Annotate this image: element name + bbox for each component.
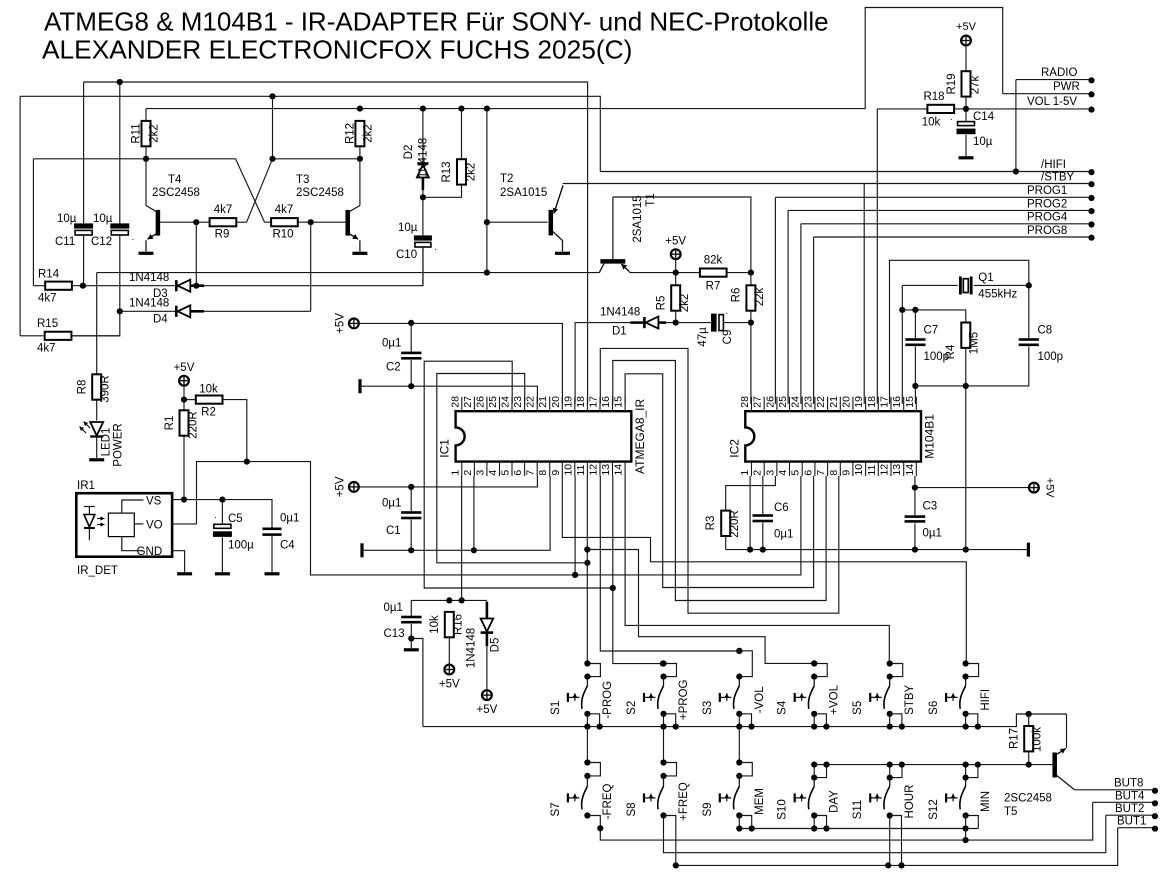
wire row2 bottom bus [736, 816, 978, 832]
resistor R8 [77, 273, 112, 421]
wire IC1 pin10 to IR signal [572, 476, 578, 578]
svg-text:C1: C1 [386, 525, 401, 537]
svg-text:R19: R19 [946, 73, 958, 94]
svg-text:1N4148: 1N4148 [129, 298, 169, 310]
svg-text:1: 1 [449, 470, 461, 476]
switch S1 -PROG [550, 660, 614, 729]
transistor T1 [599, 193, 657, 272]
svg-text:C14: C14 [973, 111, 995, 123]
svg-text:R18: R18 [923, 91, 944, 103]
resistor R9 [210, 204, 247, 241]
diode D1 [575, 307, 676, 404]
svg-text:2: 2 [752, 470, 764, 476]
svg-text:5: 5 [500, 470, 512, 476]
svg-text:S6: S6 [928, 701, 940, 715]
svg-text:4k7: 4k7 [38, 293, 57, 305]
svg-text:2k2: 2k2 [466, 163, 478, 182]
power +5V top right [956, 21, 977, 71]
svg-text:STBY: STBY [904, 684, 916, 714]
switch S11 HOUR [852, 762, 916, 820]
ground under C14 [959, 156, 974, 159]
svg-text:PROG4: PROG4 [1027, 212, 1068, 224]
svg-text:·: · [950, 114, 953, 124]
wire C13 to switch common [411, 639, 423, 727]
svg-text:+5V: +5V [477, 704, 498, 716]
svg-text:S12: S12 [928, 799, 940, 819]
wire Q1 left to IC2 pin16 [899, 285, 905, 404]
svg-text:6: 6 [802, 470, 814, 476]
wire IC1 pin13 to S2 [613, 476, 666, 667]
svg-text:R14: R14 [38, 269, 60, 281]
svg-text:·: · [132, 234, 135, 244]
ground under T2 [555, 252, 570, 255]
svg-text:82k: 82k [704, 255, 723, 267]
wire node T4 collector row [33, 156, 363, 162]
svg-text:R16: R16 [453, 614, 465, 635]
svg-text:M104B1: M104B1 [923, 414, 937, 459]
svg-text:ATMEGA8_IR: ATMEGA8_IR [633, 399, 647, 474]
wire IC1 pin1 riser [461, 476, 463, 600]
svg-text:0µ1: 0µ1 [382, 498, 401, 510]
wire gnd rail left [363, 476, 550, 553]
svg-text:R12: R12 [344, 123, 356, 144]
svg-text:C11: C11 [55, 236, 75, 248]
svg-text:1: 1 [739, 470, 751, 476]
svg-text:27k: 27k [970, 75, 982, 94]
wire VS net [172, 497, 272, 528]
svg-text:C12: C12 [91, 236, 112, 248]
diode D3 [129, 247, 423, 300]
ground under LED1 [89, 458, 104, 461]
svg-text:1N4148: 1N4148 [600, 307, 640, 319]
wire IC1 pin12 to S3 [600, 476, 742, 654]
switch S12 MIN [928, 762, 992, 820]
svg-text:D5: D5 [490, 638, 502, 653]
svg-text:C3: C3 [923, 501, 938, 513]
svg-text:0µ1: 0µ1 [774, 529, 793, 541]
resistor R2 [184, 384, 247, 462]
resistor R1 [164, 410, 200, 499]
resistor R4 [945, 323, 981, 553]
wire rail1 (C11/C12 top to IC1 pin18) [84, 79, 588, 404]
svg-text:RADIO: RADIO [1041, 67, 1077, 79]
resistor R18 [877, 91, 966, 129]
svg-text:ATMEG8 & M104B1 - IR-ADAPTER F: ATMEG8 & M104B1 - IR-ADAPTER Für SONY- u… [44, 7, 829, 37]
svg-text:R8: R8 [77, 380, 89, 395]
resistor R16 [429, 612, 465, 665]
wire D4 riser from T3 base [310, 222, 312, 311]
svg-text:BUT4: BUT4 [1115, 790, 1145, 802]
ground under C5 [215, 572, 230, 575]
switch S6 HIFI [928, 660, 992, 729]
svg-text:13: 13 [891, 464, 903, 476]
svg-text:10k: 10k [922, 117, 941, 129]
wire switch row1 common [423, 711, 1067, 727]
svg-text:4k7: 4k7 [214, 204, 233, 216]
svg-text:ALEXANDER ELECTRONICFOX FUCHS: ALEXANDER ELECTRONICFOX FUCHS 2025(C) [42, 35, 632, 65]
svg-text:21: 21 [828, 396, 840, 408]
svg-text:8: 8 [828, 470, 840, 476]
svg-text:19: 19 [853, 396, 865, 408]
svg-text:21: 21 [537, 396, 549, 408]
svg-text:24: 24 [790, 396, 802, 408]
ground bar left mid [360, 543, 363, 557]
svg-text:+5V: +5V [1044, 478, 1056, 499]
wire S12 down [963, 816, 979, 844]
svg-text:2k2: 2k2 [149, 124, 161, 143]
svg-text:-VOL: -VOL [754, 686, 766, 713]
svg-text:0µ1: 0µ1 [382, 338, 401, 350]
transistor T2 [484, 173, 563, 252]
svg-text:9: 9 [550, 470, 562, 476]
wire reset net [411, 597, 487, 615]
svg-text:R7: R7 [706, 281, 721, 293]
svg-text:LED1: LED1 [101, 428, 113, 457]
wire IC1 pin2 to gnd [473, 476, 475, 550]
wire RADIO riser to HIFI [1013, 80, 1019, 175]
net label BUT4 [1093, 790, 1158, 806]
svg-text:+PROG: +PROG [678, 679, 690, 720]
net label RADIO [1016, 67, 1095, 83]
wire S9 staple down [739, 816, 751, 829]
svg-text:T2: T2 [500, 173, 513, 185]
svg-text:BUT1: BUT1 [1117, 816, 1146, 828]
capacitor C2 [382, 323, 421, 386]
svg-text:+5V: +5V [665, 236, 686, 248]
svg-text:10k: 10k [429, 615, 441, 634]
svg-text:10µ: 10µ [973, 136, 993, 148]
capacitor C3 [905, 488, 942, 550]
net label PROG2 [788, 198, 1095, 404]
svg-text:C6: C6 [774, 502, 789, 514]
svg-text:9: 9 [840, 470, 852, 476]
svg-text:HIFI: HIFI [980, 689, 992, 711]
power +5V at C1 [335, 476, 359, 497]
svg-text:10k: 10k [199, 384, 218, 396]
switch S2 +PROG [626, 660, 690, 729]
svg-text:S3: S3 [702, 701, 714, 715]
svg-text:+5V: +5V [174, 362, 195, 374]
svg-text:R6: R6 [731, 288, 743, 303]
svg-text:26: 26 [764, 396, 776, 408]
capacitor C13 [384, 602, 422, 642]
svg-text:10: 10 [562, 464, 574, 476]
svg-text:+5V: +5V [335, 476, 347, 497]
power +5V at IC2 pin14 [912, 476, 1056, 498]
svg-text:22: 22 [525, 396, 537, 408]
svg-text:R5: R5 [656, 296, 668, 311]
svg-text:100p: 100p [1038, 351, 1064, 363]
wire T1 emitter node [630, 270, 700, 276]
svg-text:BUT8: BUT8 [1114, 778, 1143, 790]
wire gnd rail right [726, 547, 1022, 553]
wire S10 staple down [814, 816, 826, 829]
IC U2 M104B1 (IC2) [727, 396, 936, 476]
capacitor C11 [55, 82, 99, 286]
svg-text:28: 28 [449, 396, 461, 408]
wire rail3 (R11/R12/D2/R13/T2 tops to +5V top right) [146, 8, 1003, 112]
net label PROG8 [814, 225, 1095, 404]
svg-text:D1: D1 [612, 326, 627, 338]
svg-text:4: 4 [487, 470, 499, 476]
capacitor C1 [382, 487, 421, 550]
power +5V under R16 [439, 665, 460, 691]
svg-text:S5: S5 [852, 701, 864, 715]
resistor R13 [420, 109, 478, 201]
svg-text:R1: R1 [164, 416, 176, 431]
svg-text:D2: D2 [403, 145, 415, 160]
svg-text:MIN: MIN [980, 791, 992, 812]
svg-text:+5V: +5V [956, 21, 977, 33]
svg-text:12: 12 [588, 464, 600, 476]
svg-text:-FREQ: -FREQ [602, 784, 614, 820]
ground under C4 [265, 572, 280, 575]
svg-text:28: 28 [739, 396, 751, 408]
wire R14 riser [32, 159, 34, 286]
ground bar right [1022, 543, 1029, 557]
svg-text:26: 26 [474, 396, 486, 408]
capacitor C14 [950, 111, 995, 156]
wire S1 column from IC1 pin11 [584, 476, 590, 664]
svg-text:VO: VO [146, 519, 163, 531]
wire S8 staple to BUT1 line [664, 816, 676, 866]
resistor R3 [705, 476, 775, 550]
svg-text:2SA1015: 2SA1015 [500, 187, 547, 199]
svg-text:24: 24 [500, 396, 512, 408]
svg-text:13: 13 [600, 464, 612, 476]
svg-text:5: 5 [790, 470, 802, 476]
svg-text:27: 27 [462, 396, 474, 408]
crystal Q1 [902, 272, 1032, 301]
svg-text:100k: 100k [1032, 727, 1044, 752]
svg-text:14: 14 [904, 464, 916, 476]
svg-text:S11: S11 [852, 800, 864, 820]
svg-text:2k2: 2k2 [362, 124, 374, 143]
svg-text:+FREQ: +FREQ [678, 782, 690, 821]
svg-text:22k: 22k [754, 287, 766, 306]
svg-text:T1: T1 [645, 193, 657, 206]
photodiode inside IR1 [84, 506, 105, 540]
transistor T3 [296, 159, 360, 252]
svg-text:23: 23 [802, 396, 814, 408]
svg-text:23: 23 [512, 396, 524, 408]
LED LED1 POWER [80, 422, 125, 467]
capacitor C4 [262, 513, 299, 573]
ground under T4 [139, 252, 154, 255]
svg-text:100µ: 100µ [228, 540, 254, 552]
net label BUT1 [1117, 816, 1158, 832]
svg-text:27: 27 [752, 396, 764, 408]
resistor R5 [656, 273, 691, 326]
svg-text:4k7: 4k7 [275, 204, 294, 216]
power +5V at R1 [174, 362, 195, 410]
svg-text:1M5: 1M5 [969, 332, 981, 354]
wire IC1 pin9 to S6 [562, 476, 966, 664]
svg-text:PROG2: PROG2 [1027, 198, 1067, 210]
svg-text:455kHz: 455kHz [978, 289, 1017, 301]
svg-text:C4: C4 [280, 540, 295, 552]
svg-text:C10: C10 [396, 249, 417, 261]
resistor R17 [1009, 714, 1044, 765]
svg-text:25: 25 [487, 396, 499, 408]
resistor R12 [344, 121, 374, 159]
svg-text:3: 3 [764, 470, 776, 476]
capacitor C5 [213, 500, 254, 572]
wire cross coupling T4-T3 [236, 96, 273, 222]
resistor R6 [731, 273, 767, 404]
svg-text:IR_DET: IR_DET [77, 565, 118, 577]
wire rail2 (border to /HIFI) [20, 93, 600, 171]
wire IC1 pin17 bracket to IC2 pin8 [600, 348, 839, 613]
svg-text:16: 16 [600, 396, 612, 408]
svg-text:C7: C7 [924, 325, 939, 337]
resistor R14 [33, 269, 175, 305]
svg-text:22: 22 [815, 396, 827, 408]
svg-text:IC2: IC2 [727, 439, 741, 458]
svg-text:2SC2458: 2SC2458 [296, 187, 344, 199]
ground under C13 [404, 639, 419, 650]
wire C7 R4 top [902, 307, 966, 323]
svg-text:/STBY: /STBY [1041, 172, 1075, 184]
wire T2 collector riser [484, 109, 490, 276]
svg-text:11: 11 [866, 465, 878, 476]
svg-text:0µ1: 0µ1 [280, 513, 299, 525]
svg-text:25: 25 [777, 396, 789, 408]
switch S9 MEM [702, 727, 766, 819]
svg-text:47µ: 47µ [697, 327, 709, 347]
capacitor C6 [753, 476, 794, 550]
wire GND of IR1 [172, 551, 185, 572]
wire T1 base to R6 top [613, 197, 751, 273]
svg-text:C2: C2 [386, 362, 401, 374]
svg-text:4: 4 [777, 470, 789, 476]
svg-text:VS: VS [146, 496, 162, 508]
diode D2 [403, 109, 430, 198]
switch S5 STBY [852, 660, 916, 729]
net label VOL 1-5V [966, 96, 1095, 113]
svg-text:1N4148: 1N4148 [129, 272, 169, 284]
svg-text:/HIFI: /HIFI [1041, 159, 1066, 171]
wire LED rail y273 [97, 272, 600, 274]
capacitor C12 [70, 82, 134, 336]
svg-text:18: 18 [575, 396, 587, 408]
switch S10 DAY [777, 762, 841, 820]
svg-text:·: · [214, 512, 217, 522]
svg-text:R3: R3 [705, 516, 717, 531]
wire T4 base [160, 219, 210, 225]
wire IC1 pin16 bracket to IC2 pin7 [613, 361, 826, 601]
svg-text:8: 8 [537, 470, 549, 476]
wire IC1 pin23 bracket to S1 column [437, 374, 591, 566]
switch S4 +VOL [777, 660, 841, 729]
svg-text:1N4148: 1N4148 [466, 628, 478, 668]
ground under T3 [352, 252, 367, 255]
svg-text:S10: S10 [777, 799, 789, 819]
svg-text:R9: R9 [215, 229, 230, 241]
svg-text:18: 18 [866, 396, 878, 408]
svg-text:14: 14 [613, 464, 625, 476]
svg-text:GND: GND [137, 546, 163, 558]
svg-text:D4: D4 [153, 314, 168, 326]
resistor R7 [700, 255, 754, 293]
resistor R15 [20, 318, 120, 355]
wire VO net [172, 459, 801, 575]
svg-text:R10: R10 [272, 229, 293, 241]
svg-text:1N4148: 1N4148 [418, 138, 430, 178]
svg-text:7: 7 [815, 470, 827, 476]
svg-text:·: · [725, 308, 728, 318]
svg-text:MEM: MEM [754, 788, 766, 815]
wire S8 to BUT2 [664, 815, 1106, 853]
svg-text:0µ1: 0µ1 [923, 528, 942, 540]
svg-text:390R: 390R [100, 375, 112, 403]
svg-text:S9: S9 [702, 802, 714, 816]
svg-text:R4: R4 [945, 344, 957, 359]
svg-text:2SC2458: 2SC2458 [1004, 793, 1052, 805]
svg-text:R13: R13 [441, 161, 453, 182]
net label BUT2 [1106, 803, 1158, 819]
wire S4 feed from pin11 node [587, 550, 817, 667]
wire +5V to IC1 pin20 [359, 320, 563, 404]
svg-text:4k7: 4k7 [37, 343, 56, 355]
svg-text:10µ: 10µ [398, 222, 418, 234]
wire IC1 pin14 to S5 [625, 476, 889, 664]
svg-text:S8: S8 [626, 802, 638, 816]
svg-text:T5: T5 [1004, 806, 1017, 818]
svg-text:·: · [434, 244, 437, 254]
svg-text:0µ1: 0µ1 [384, 602, 403, 614]
capacitor C7 [905, 310, 949, 404]
svg-text:C5: C5 [228, 513, 243, 525]
svg-text:IC1: IC1 [438, 439, 452, 458]
svg-text:T4: T4 [168, 174, 182, 186]
svg-text:+5V: +5V [335, 313, 347, 334]
wire D3 riser from T4 base [195, 222, 197, 286]
svg-text:10: 10 [853, 464, 865, 476]
svg-text:3: 3 [474, 470, 486, 476]
svg-text:R11: R11 [131, 123, 143, 143]
power +5V under D5 [477, 690, 498, 716]
wire BUT1 bottom line [673, 828, 1118, 869]
net label PWR [1003, 81, 1095, 98]
wire T5 base line [814, 762, 1053, 768]
svg-text:PROG1: PROG1 [1027, 185, 1067, 197]
svg-text:Q1: Q1 [978, 272, 993, 284]
wire IC1 pin15 bracket to IC2 pin6 [625, 374, 814, 588]
svg-text:19: 19 [562, 396, 574, 408]
resistor R19 [946, 71, 982, 121]
net label PROG1 [775, 185, 1094, 404]
wire IC2 pin17 to Q1 box [890, 260, 1029, 404]
svg-text:20: 20 [550, 396, 562, 408]
svg-text:10µ: 10µ [57, 213, 77, 225]
resistor R11 [131, 109, 161, 159]
svg-text:S7: S7 [550, 802, 562, 816]
svg-text:C13: C13 [384, 628, 405, 640]
wire +5V to IC1 pin7 [359, 476, 538, 490]
svg-text:C9: C9 [722, 330, 734, 345]
net label /HIFI [600, 159, 1094, 175]
svg-text:7: 7 [525, 470, 537, 476]
svg-text:20: 20 [840, 396, 852, 408]
svg-text:17: 17 [879, 396, 891, 408]
wire IC2 pin19 riser [863, 184, 865, 404]
svg-text:15: 15 [904, 396, 916, 408]
capacitor C9 [676, 308, 751, 347]
svg-text:17: 17 [588, 396, 600, 408]
IR receiver IR1 box [76, 480, 172, 577]
IR1 inner block [108, 496, 162, 559]
